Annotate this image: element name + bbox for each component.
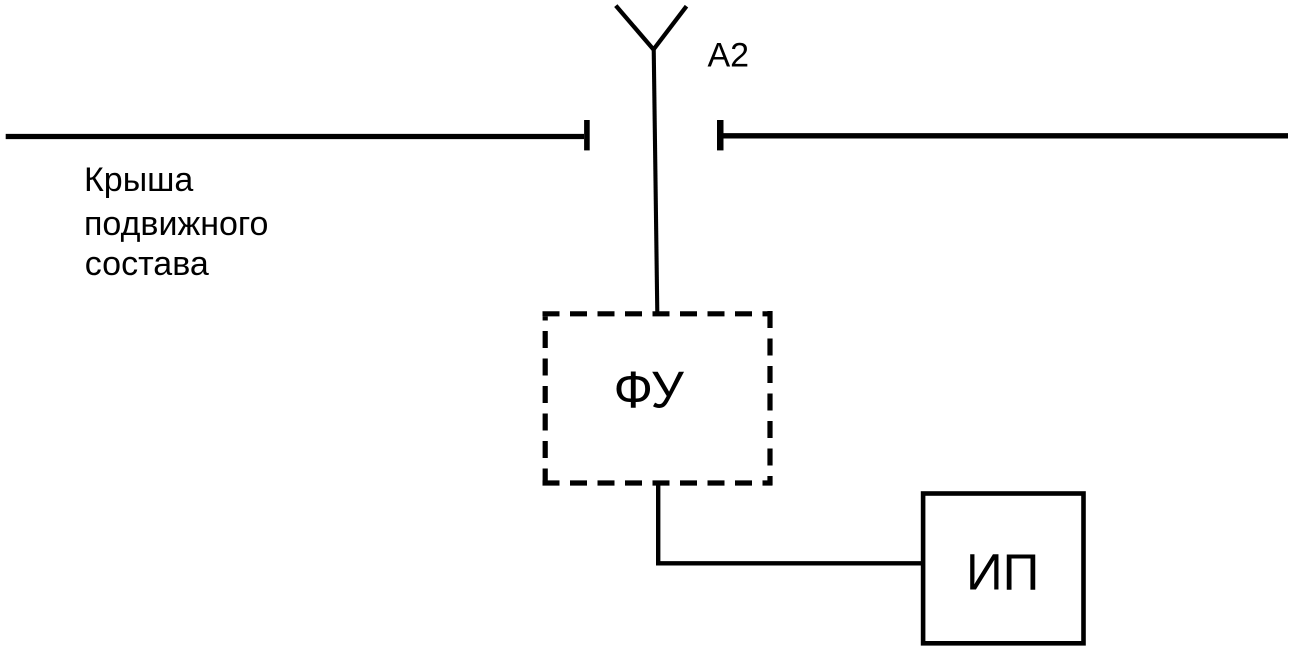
node roof-gap right terminal tick (717, 120, 724, 150)
antenna A2 (616, 6, 687, 50)
svg-text:ФУ: ФУ (614, 362, 685, 420)
node label: roof of rolling stock (84, 161, 268, 283)
wire roof left segment (6, 134, 584, 139)
block IP (power supply box) (923, 494, 1083, 644)
wire horizontal to IP box (656, 561, 923, 565)
svg-text:состава: состава (85, 245, 209, 283)
wire FU bottom vertical (656, 483, 660, 566)
wire antenna feed (antenna to FU box) (654, 48, 658, 314)
wire roof right segment (720, 133, 1288, 138)
svg-text:подвижного: подвижного (84, 205, 268, 243)
svg-text:А2: А2 (708, 37, 750, 75)
block FU (dashed box, filter unit) (543, 311, 773, 486)
node roof-gap left terminal tick (584, 120, 590, 150)
svg-text:Крыша: Крыша (84, 161, 193, 199)
svg-text:ИП: ИП (966, 544, 1039, 601)
